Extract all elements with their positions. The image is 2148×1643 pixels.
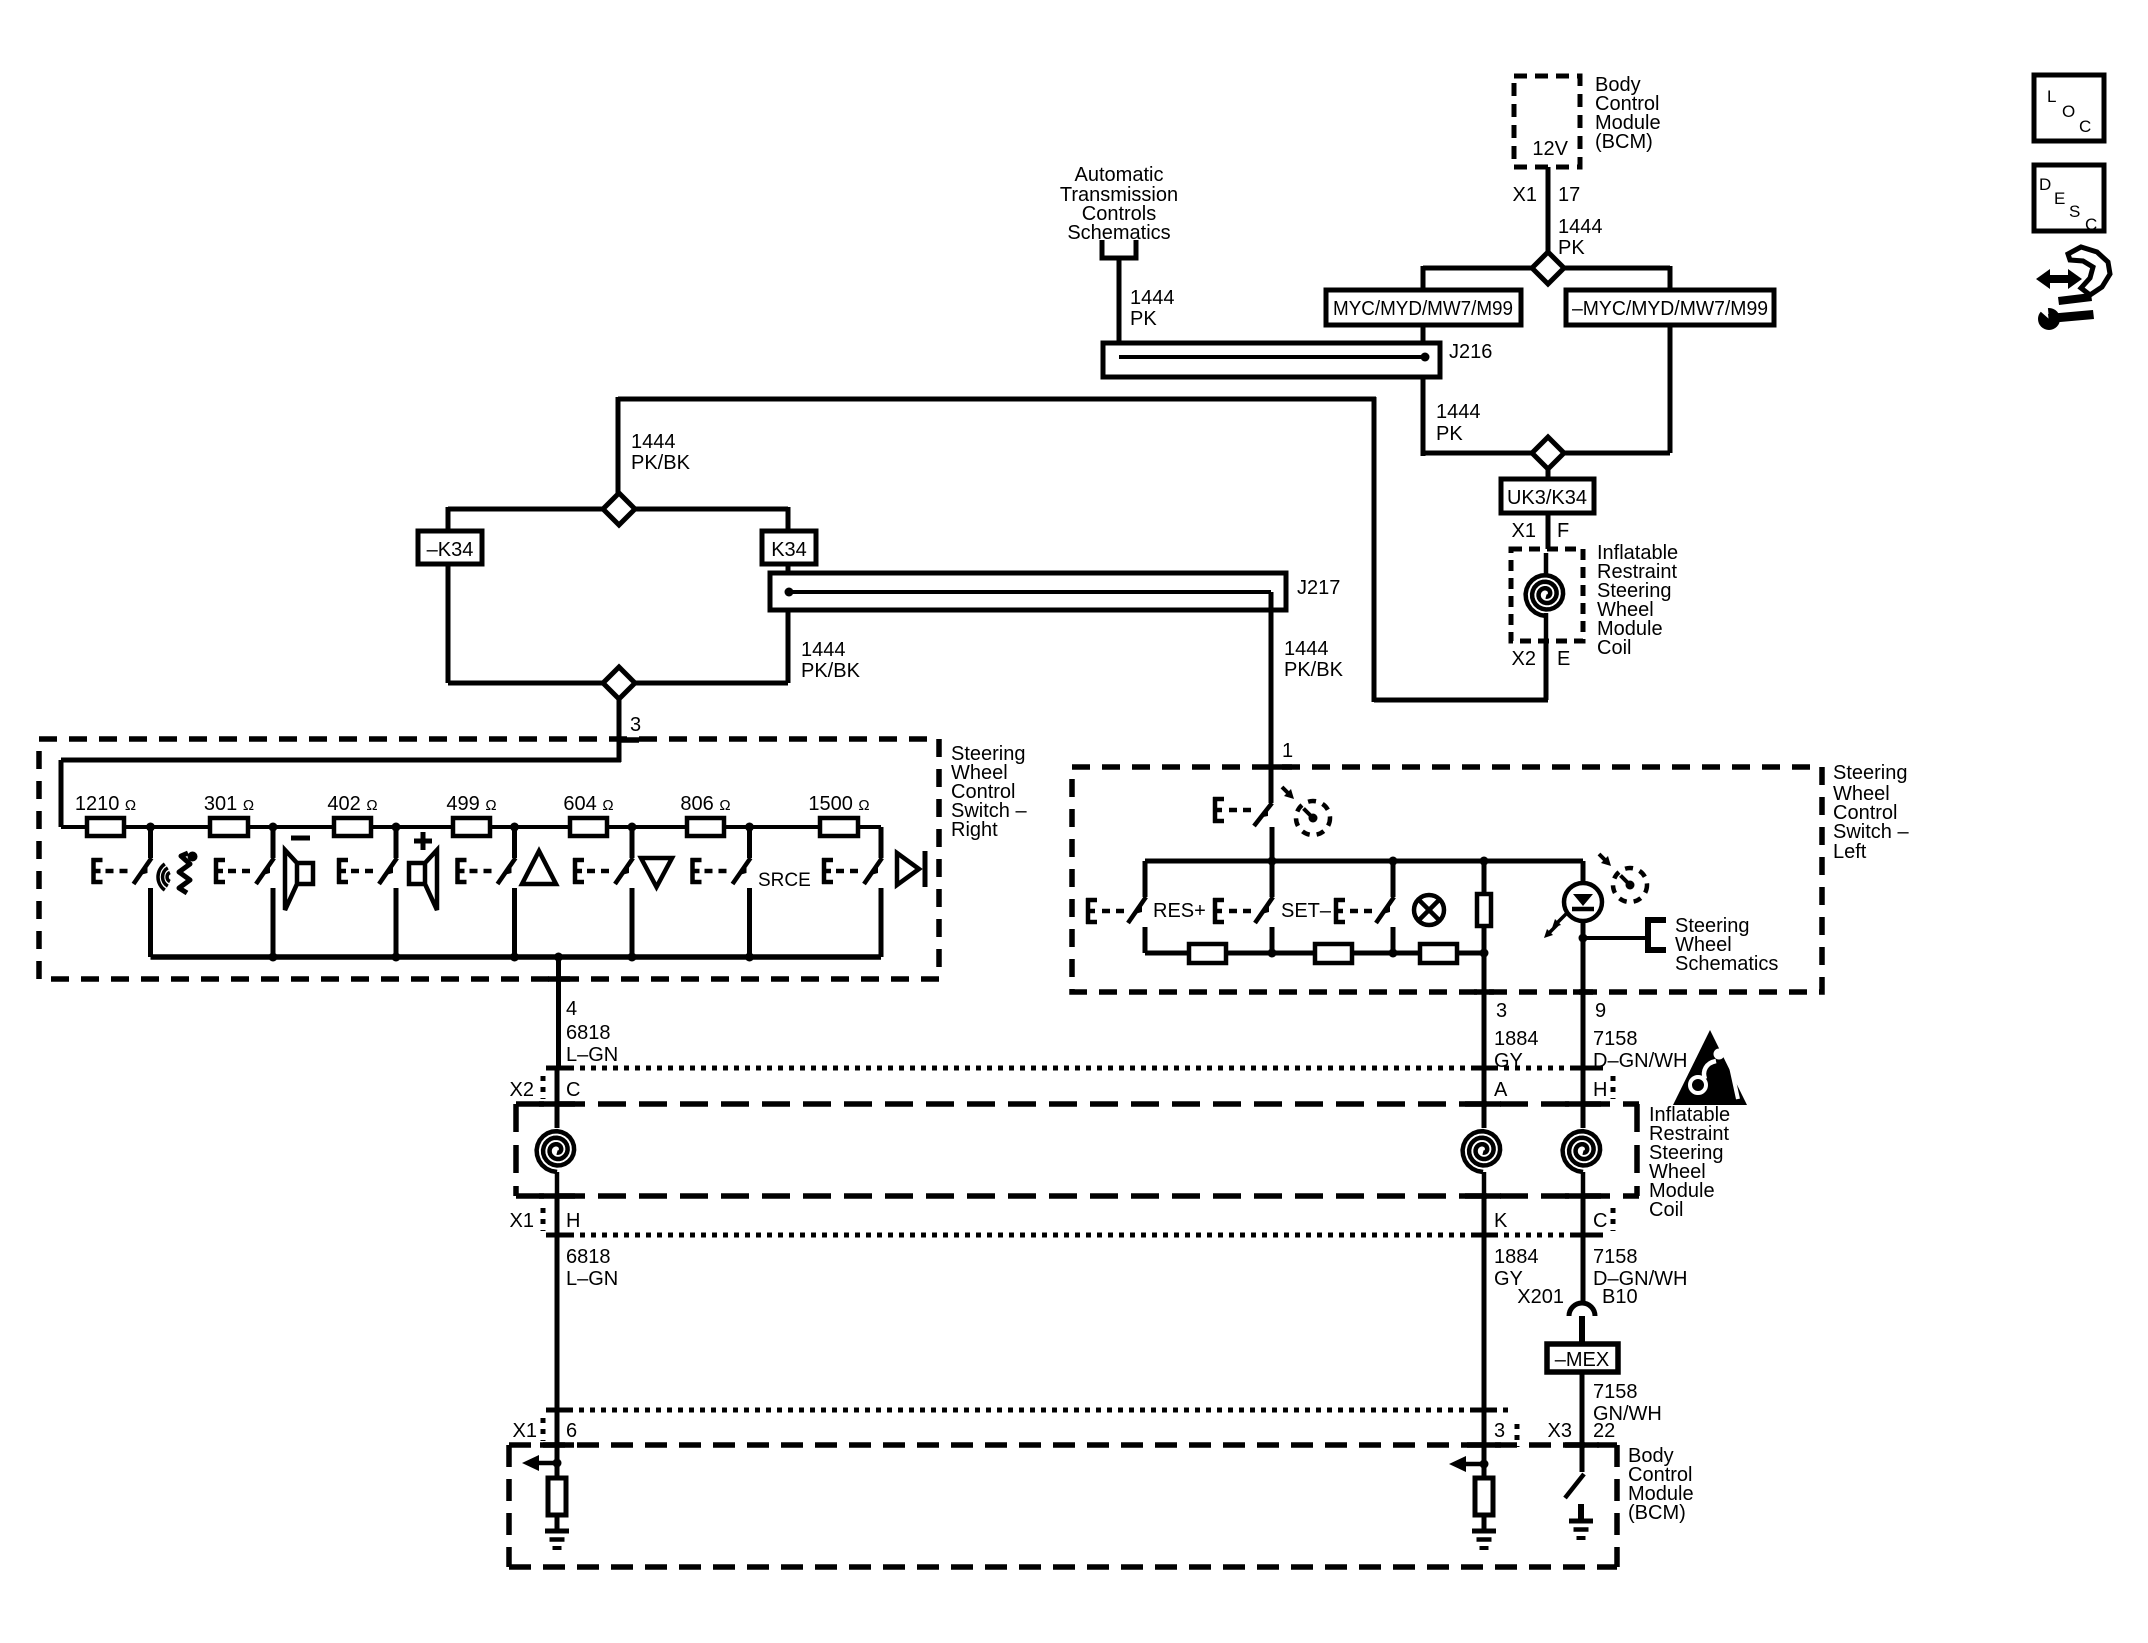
- svg-text:Switch –: Switch –: [1833, 821, 1909, 843]
- switch S-next: [864, 827, 882, 957]
- svg-text:C: C: [566, 1079, 580, 1101]
- resistor R1 1210 ohm: [87, 818, 124, 836]
- switch volume down E annotation: [214, 858, 250, 884]
- wire S4 right: [635, 681, 788, 686]
- label Body Control Module (BCM) bottom: [1628, 1445, 1694, 1524]
- label X3: [1548, 1420, 1572, 1442]
- wire left box lower bus: [1145, 951, 1484, 956]
- legend service icon: [2031, 247, 2110, 330]
- splice S4 diamond: [603, 667, 635, 699]
- pin label 1: [1282, 740, 1293, 762]
- wire to ground 1: [555, 1515, 560, 1531]
- resistor R3 402 ohm: [334, 818, 371, 836]
- svg-text:12V: 12V: [1532, 138, 1568, 160]
- wire 6818 into BCM: [555, 1445, 560, 1478]
- pin label 4: [566, 998, 577, 1020]
- connector line X1/X3 dotted: [546, 1408, 1514, 1413]
- wire left to S2: [1423, 451, 1532, 456]
- label Body Control Module (BCM) top: [1595, 74, 1661, 153]
- wire inside J217: [789, 590, 1271, 594]
- svg-text:Coil: Coil: [1597, 637, 1631, 659]
- svg-text:Left: Left: [1833, 841, 1867, 863]
- wire 7158 upper: [1581, 992, 1586, 1104]
- module BCM top dashed box: [1514, 76, 1580, 167]
- connector stub 3 BCM: [1515, 1424, 1520, 1447]
- junction dot switch seek down: [628, 823, 637, 832]
- switch S-cancel: [1376, 861, 1394, 953]
- junction dot bus: [269, 953, 278, 962]
- wire S3 left: [448, 507, 603, 531]
- pin label C (coil top): [566, 1079, 580, 1101]
- label J216: [1449, 341, 1492, 363]
- wire label 6818 L-GN (lower): [566, 1246, 618, 1290]
- svg-text:A: A: [1494, 1079, 1508, 1101]
- wire to ground 2: [1482, 1515, 1487, 1531]
- splice pack J217 bar: [770, 573, 1286, 610]
- wire inside J216: [1119, 355, 1425, 359]
- connector stub X2: [541, 1076, 546, 1099]
- module box Steering Wheel Control Switch - Left: [1072, 767, 1822, 992]
- label Steering Wheel Control Switch - Right: [951, 743, 1027, 841]
- svg-text:X1: X1: [1512, 520, 1536, 542]
- svg-text:X1: X1: [510, 1210, 534, 1232]
- wire 1884 lower: [1482, 1196, 1487, 1445]
- icon cruise dial 2: [1599, 854, 1647, 902]
- label 301 ohm: [204, 793, 254, 815]
- wire resistor ladder: [61, 825, 881, 829]
- junction dot switch source: [745, 823, 754, 832]
- wire -MYC box down: [1668, 325, 1673, 453]
- label 1500 ohm: [808, 793, 869, 815]
- svg-text:1444: 1444: [1130, 287, 1175, 309]
- junction dot schematics tap: [1579, 934, 1588, 943]
- wire S4 left: [448, 681, 603, 686]
- label X1 (coil): [510, 1210, 534, 1232]
- wire 6818 through coil: [555, 1070, 560, 1128]
- wire label 1444 PK/BK (J217 left): [801, 639, 861, 682]
- junction dot J216: [1421, 353, 1430, 362]
- wire 6818 lower: [555, 1196, 560, 1445]
- svg-text:6818: 6818: [566, 1022, 611, 1044]
- switch on/off E annotation: [1213, 797, 1251, 823]
- wire 1884 GY upper: [1482, 953, 1487, 1104]
- option box -K34: [418, 531, 482, 564]
- label Inflatable Restraint Steering Wheel Module Coil (bottom): [1649, 1104, 1730, 1221]
- junction dot output: [554, 953, 563, 962]
- label X2 (coil): [510, 1079, 534, 1101]
- pin label C (coil bottom): [1593, 1210, 1607, 1232]
- switch S-voice: [134, 827, 152, 957]
- wire S2 to UK3/K34: [1546, 469, 1551, 479]
- svg-text:806 Ω: 806 Ω: [680, 793, 730, 815]
- wire S4 down to switch box: [617, 699, 622, 762]
- svg-text:X1: X1: [513, 1420, 537, 1442]
- switch seek down E annotation: [573, 858, 609, 884]
- svg-text:X2: X2: [510, 1079, 534, 1101]
- svg-text:F: F: [1557, 520, 1569, 542]
- switch SET- E annotation: [1213, 898, 1251, 924]
- internal arrow left 1: [522, 1455, 557, 1471]
- icon airbag warning triangle: [1673, 1030, 1747, 1105]
- wire down to S3: [616, 397, 621, 493]
- connector line X1 dotted: [546, 1233, 1603, 1238]
- wire bus corner to LED: [1581, 861, 1586, 884]
- svg-text:L–GN: L–GN: [566, 1044, 618, 1066]
- svg-text:E: E: [1557, 648, 1570, 670]
- pin label X2 (coil bottom): [1512, 648, 1536, 670]
- switch RES+ E annotation: [1086, 898, 1124, 924]
- svg-text:PK/BK: PK/BK: [631, 452, 691, 474]
- junction dot bus 1: [1268, 857, 1277, 866]
- switch S-on/off blade: [1254, 803, 1272, 826]
- module coil box bottom dashed: [516, 1104, 1639, 1196]
- svg-text:Schematics: Schematics: [1067, 222, 1170, 244]
- wire LED down: [1581, 920, 1586, 992]
- connector stub C: [1611, 1208, 1616, 1231]
- label 12V: [1532, 138, 1568, 160]
- label X201: [1517, 1286, 1564, 1308]
- label J217: [1297, 577, 1340, 599]
- connector stub X1 BCM: [541, 1418, 546, 1441]
- wire S3 right: [635, 507, 788, 531]
- svg-text:Coil: Coil: [1649, 1199, 1683, 1221]
- svg-text:H: H: [566, 1210, 580, 1232]
- resistor R-bcm2: [1475, 1478, 1493, 1515]
- resistor R-led branch: [1477, 861, 1491, 953]
- svg-text:B10: B10: [1602, 1286, 1638, 1308]
- wire UK3/K34 to coil: [1546, 513, 1551, 553]
- svg-text:7158: 7158: [1593, 1246, 1638, 1268]
- label 499 ohm: [446, 793, 496, 815]
- wire output pin4 down: [556, 957, 561, 1070]
- svg-text:E: E: [2054, 189, 2065, 208]
- junction dot bus: [510, 953, 519, 962]
- module coil box top dashed: [1511, 549, 1583, 641]
- coil L4 spiral: [1563, 1104, 1601, 1196]
- resistor R6 806 ohm: [687, 818, 724, 836]
- pin label E (coil bottom): [1557, 648, 1570, 670]
- wire on/off to bus: [1270, 827, 1275, 861]
- wire label 1444 PK (ATC): [1130, 287, 1175, 330]
- svg-text:Steering: Steering: [1833, 762, 1908, 784]
- svg-text:(BCM): (BCM): [1595, 131, 1653, 153]
- svg-text:L–GN: L–GN: [566, 1268, 618, 1290]
- wire label 1444 PK/BK (J217 right): [1284, 638, 1344, 681]
- splice S1 diamond: [1532, 252, 1564, 284]
- svg-text:4: 4: [566, 998, 577, 1020]
- label 402 ohm: [327, 793, 377, 815]
- junction dot bus: [628, 953, 637, 962]
- svg-text:3: 3: [630, 714, 641, 736]
- legend LOC box: [2034, 75, 2104, 141]
- option box K34: [762, 531, 816, 564]
- svg-text:C: C: [2085, 215, 2097, 234]
- wire label 6818 L-GN (upper): [566, 1022, 618, 1066]
- svg-text:6818: 6818: [566, 1246, 611, 1268]
- wire label 1444 PK (below J216): [1436, 401, 1481, 445]
- svg-text:Automatic: Automatic: [1075, 164, 1164, 186]
- wire label 7158 D-GN/WH (upper): [1593, 1028, 1687, 1072]
- svg-text:6: 6: [566, 1420, 577, 1442]
- svg-text:–MYC/MYD/MW7/M99: –MYC/MYD/MW7/M99: [1572, 298, 1768, 320]
- switch volume up E annotation: [337, 858, 373, 884]
- svg-text:PK: PK: [1436, 423, 1463, 445]
- resistor Ra: [1189, 944, 1226, 963]
- junction dot BCM 2: [1480, 1460, 1489, 1469]
- svg-text:X201: X201: [1517, 1286, 1564, 1308]
- label SRCE: [758, 870, 811, 891]
- label RES+: [1153, 900, 1206, 922]
- svg-text:402 Ω: 402 Ω: [327, 793, 377, 815]
- icon seek down triangle: [641, 858, 672, 887]
- svg-text:499 Ω: 499 Ω: [446, 793, 496, 815]
- splice S2 diamond: [1532, 437, 1564, 469]
- svg-text:K: K: [1494, 1210, 1508, 1232]
- label Steering Wheel Schematics: [1675, 915, 1778, 975]
- resistor R4 499 ohm: [453, 818, 490, 836]
- label X1 (BCM): [513, 1420, 537, 1442]
- wire coil E down and left: [1374, 641, 1548, 700]
- svg-text:SET–: SET–: [1281, 900, 1332, 922]
- switch cancel E annotation: [1334, 898, 1372, 924]
- icon cruise dial 1: [1282, 787, 1330, 835]
- icon next track: [897, 851, 925, 887]
- svg-text:J217: J217: [1297, 577, 1340, 599]
- option box -MYC/MYD/MW7/M99: [1566, 290, 1774, 325]
- junction dot switch volume down: [269, 823, 278, 832]
- svg-text:301 Ω: 301 Ω: [204, 793, 254, 815]
- wire MYC box down through J216: [1421, 325, 1426, 456]
- wire S1 to right branch: [1564, 266, 1670, 290]
- svg-text:J216: J216: [1449, 341, 1492, 363]
- switch S-RES+: [1128, 861, 1146, 953]
- wire K34 down into J217: [786, 564, 791, 592]
- switch S-volume down: [256, 827, 274, 957]
- svg-text:PK: PK: [1558, 237, 1585, 259]
- svg-text:PK/BK: PK/BK: [1284, 659, 1344, 681]
- svg-text:1884: 1884: [1494, 1028, 1539, 1050]
- svg-text:O: O: [2062, 102, 2075, 121]
- pin label H (coil bottom): [566, 1210, 580, 1232]
- switch S-bcm: [1565, 1474, 1584, 1498]
- coil L2 spiral: [537, 1131, 575, 1196]
- wire ATC down to J216: [1117, 258, 1122, 359]
- svg-text:9: 9: [1595, 1000, 1606, 1022]
- wire BCM pin17 down: [1546, 167, 1551, 253]
- junction dot J217: [785, 588, 794, 597]
- resistor R7 1500 ohm: [820, 818, 858, 836]
- splice pack J216 bar: [1103, 343, 1440, 377]
- svg-text:7158: 7158: [1593, 1381, 1638, 1403]
- svg-text:(BCM): (BCM): [1628, 1502, 1686, 1524]
- pin label K: [1494, 1210, 1508, 1232]
- pin label 3 (left box): [1496, 1000, 1507, 1022]
- wire S1 to left branch: [1423, 266, 1532, 290]
- pin label H: [1593, 1079, 1607, 1101]
- junction dot lower 3: [1480, 949, 1489, 958]
- label Inflatable Restraint Steering Wheel Module Coil (top): [1597, 542, 1678, 659]
- svg-text:RES+: RES+: [1153, 900, 1206, 922]
- pin label X1 (coil top): [1512, 520, 1536, 542]
- svg-text:D: D: [2039, 175, 2051, 194]
- switch source E annotation: [691, 858, 727, 884]
- connector stub H: [1611, 1076, 1616, 1099]
- wire K34 branch down to S4: [786, 610, 791, 683]
- svg-text:UK3/K34: UK3/K34: [1507, 487, 1587, 509]
- pin label 3 (BCM): [1494, 1420, 1505, 1442]
- connector X201 pass-through: [1569, 1303, 1595, 1344]
- junction dot bus 2: [1389, 857, 1398, 866]
- wire label 1444 PK (top): [1558, 216, 1603, 259]
- resistor Rc: [1420, 944, 1457, 963]
- resistor R5 604 ohm: [570, 818, 607, 836]
- connector line X2 dotted: [546, 1066, 1603, 1071]
- label Automatic Transmission Controls Schematics: [1060, 164, 1178, 244]
- svg-text:1444: 1444: [1558, 216, 1603, 238]
- svg-text:S: S: [2069, 202, 2080, 221]
- wire 7158 to X201: [1581, 1196, 1586, 1303]
- svg-text:1884: 1884: [1494, 1246, 1539, 1268]
- junction dot switch volume up: [392, 823, 401, 832]
- splice S3 diamond: [603, 493, 635, 525]
- wire right box bottom bus: [151, 954, 882, 960]
- LED cruise indicator: [1544, 883, 1602, 938]
- label 604 ohm: [563, 793, 613, 815]
- wire label 7158 GN/WH: [1593, 1381, 1662, 1425]
- switch next E annotation: [822, 858, 858, 884]
- svg-text:1444: 1444: [1436, 401, 1481, 423]
- wire top horizontal run 1444 PK/BK: [618, 397, 1376, 402]
- resistor R-bcm1: [548, 1478, 566, 1515]
- ground G3: [1569, 1521, 1593, 1538]
- junction dot BCM 1: [553, 1459, 562, 1468]
- wire J217 down to left switch box: [1269, 592, 1274, 803]
- off-page bracket ATC: [1102, 240, 1136, 258]
- label SET-: [1281, 900, 1332, 922]
- option box UK3/K34: [1501, 479, 1594, 513]
- option box -MEX: [1547, 1344, 1618, 1372]
- connector stub X1: [541, 1208, 546, 1231]
- junction dot bus 3: [1480, 857, 1489, 866]
- switch S-seek up: [498, 827, 516, 957]
- svg-text:7158: 7158: [1593, 1028, 1638, 1050]
- label 806 ohm: [680, 793, 730, 815]
- label B10: [1602, 1286, 1638, 1308]
- svg-text:1444: 1444: [631, 431, 676, 453]
- resistor R2 301 ohm: [210, 818, 248, 836]
- icon voice recognition: [158, 852, 198, 894]
- svg-text:L: L: [2047, 87, 2056, 106]
- ground G2: [1472, 1531, 1496, 1548]
- switch S-seek down: [615, 827, 633, 957]
- svg-text:604 Ω: 604 Ω: [563, 793, 613, 815]
- switch voice E annotation: [92, 858, 128, 884]
- wire 7158 GN/WH: [1580, 1372, 1585, 1445]
- junction dot switch seek up: [510, 823, 519, 832]
- module BCM bottom dashed box: [509, 1445, 1617, 1567]
- svg-text:X3: X3: [1548, 1420, 1572, 1442]
- svg-text:H: H: [1593, 1079, 1607, 1101]
- label 1210 ohm: [75, 793, 136, 815]
- coil L1 spiral: [1526, 553, 1564, 641]
- switch S-SET-: [1255, 861, 1273, 953]
- icon speaker plus: [409, 832, 437, 910]
- label Steering Wheel Control Switch - Left: [1833, 762, 1909, 863]
- svg-text:3: 3: [1496, 1000, 1507, 1022]
- junction dot lower 1: [1268, 949, 1277, 958]
- icon speaker minus: [285, 838, 313, 910]
- svg-text:PK: PK: [1130, 308, 1157, 330]
- switch seek up E annotation: [456, 858, 492, 884]
- switch S-source: [733, 827, 751, 957]
- svg-text:Right: Right: [951, 819, 998, 841]
- svg-text:X2: X2: [1512, 648, 1536, 670]
- module box Steering Wheel Control Switch - Right: [39, 739, 939, 979]
- svg-text:17: 17: [1558, 184, 1580, 206]
- pin label X1: [1513, 184, 1537, 206]
- pin label 22: [1593, 1420, 1615, 1442]
- wire label 7158 D-GN/WH (lower): [1593, 1246, 1687, 1290]
- wire 7158 into BCM: [1580, 1445, 1585, 1472]
- svg-text:X1: X1: [1513, 184, 1537, 206]
- resistor Rb: [1315, 944, 1352, 963]
- wire right box feed: [61, 760, 621, 827]
- wire 1884 into BCM: [1482, 1445, 1487, 1478]
- svg-text:C: C: [2079, 117, 2091, 136]
- svg-text:PK/BK: PK/BK: [801, 660, 861, 682]
- wire -K34 down: [446, 564, 451, 683]
- junction dot bus: [745, 953, 754, 962]
- pin label 6: [566, 1420, 577, 1442]
- wire left box bus: [1145, 859, 1583, 864]
- option box MYC/MYD/MW7/M99: [1326, 290, 1521, 325]
- pin label F: [1557, 520, 1569, 542]
- switch S-volume up: [379, 827, 397, 957]
- wire label 1884 GY (upper): [1494, 1028, 1539, 1072]
- wire right to S2: [1564, 451, 1670, 456]
- junction dot lower 2: [1389, 949, 1398, 958]
- svg-text:K34: K34: [771, 539, 807, 561]
- svg-text:1: 1: [1282, 740, 1293, 762]
- pin label 9: [1595, 1000, 1606, 1022]
- svg-text:SRCE: SRCE: [758, 870, 811, 891]
- wire to steering wheel schematics: [1583, 936, 1648, 940]
- icon cancel lamp: [1414, 895, 1444, 925]
- wire ground stub: [1578, 1504, 1584, 1521]
- junction dot switch voice: [146, 823, 155, 832]
- wire up from coil run: [1372, 397, 1377, 702]
- coil L3 spiral: [1463, 1104, 1501, 1196]
- internal arrow left 2: [1449, 1456, 1484, 1472]
- pin label 17: [1558, 184, 1580, 206]
- svg-text:1444: 1444: [801, 639, 846, 661]
- svg-text:1210 Ω: 1210 Ω: [75, 793, 136, 815]
- icon seek up triangle: [522, 851, 556, 884]
- svg-text:MYC/MYD/MW7/M99: MYC/MYD/MW7/M99: [1333, 298, 1513, 320]
- wire label 1444 PK/BK (top): [631, 431, 691, 474]
- svg-text:1500 Ω: 1500 Ω: [808, 793, 869, 815]
- legend DESC box: [2034, 165, 2104, 234]
- svg-text:C: C: [1593, 1210, 1607, 1232]
- svg-text:Schematics: Schematics: [1675, 953, 1778, 975]
- svg-text:–K34: –K34: [427, 539, 474, 561]
- svg-text:1444: 1444: [1284, 638, 1329, 660]
- wire label 1884 GY (lower): [1494, 1246, 1539, 1290]
- svg-text:3: 3: [1494, 1420, 1505, 1442]
- svg-text:–MEX: –MEX: [1555, 1349, 1609, 1371]
- svg-text:D–GN/WH: D–GN/WH: [1593, 1050, 1687, 1072]
- off-page bracket steering wheel schematics: [1648, 920, 1666, 950]
